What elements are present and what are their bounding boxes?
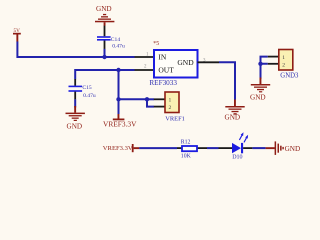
svg-text:VREF3.3V: VREF3.3V [103,119,137,128]
svg-text:REF3033: REF3033 [149,79,177,87]
capacitor C14 [97,26,125,50]
junction dot C14/bus [102,55,106,59]
wire VREF1 pin stubs [147,99,154,106]
wire node B to VREF1 [119,98,148,100]
wire 5V to IC pin1 bus [17,42,134,58]
wire node A down to node B [118,70,120,99]
svg-text:10K: 10K [181,154,192,160]
connector GND3 [268,50,299,80]
svg-text:C15: C15 [82,85,92,91]
svg-text:0.47u: 0.47u [83,93,96,99]
power port 5V [13,28,21,42]
wire port to R12 [139,147,177,149]
junction at GND3 [258,62,262,66]
svg-text:0.47u: 0.47u [112,43,125,49]
junction at VREF1 [145,97,149,101]
power ground GND (right, sideways) [266,141,301,155]
svg-text:VREF3.3V: VREF3.3V [103,145,133,152]
wire GND3 pin stubs [261,57,268,64]
power port VREF3.3V (bottom row) [103,144,140,152]
power port VREF3.3V (node B) [103,99,137,128]
ground GND (IC pin3) [225,100,245,122]
junction node B [116,97,120,101]
svg-text:GND: GND [96,5,112,13]
connector VREF1 [154,92,185,122]
svg-text:D10: D10 [232,155,242,161]
svg-text:GND: GND [285,145,301,153]
svg-text:OUT: OUT [158,66,174,75]
wire C14 bottom pin [104,49,106,57]
svg-text:1: 1 [169,98,172,104]
wire R12 to D10 [207,147,219,149]
ground GND (below GND3) [250,78,270,102]
svg-text:2: 2 [282,62,285,68]
ground GND (below C15) [66,106,85,130]
wire D10 to GND port [252,147,265,149]
svg-text:GND: GND [67,122,83,130]
wire OUT bus (C15 corner to IC pin2) [75,70,134,79]
wire GND3 to ground [260,64,262,79]
diode D10 (LED) [219,132,253,160]
svg-text:GND: GND [225,114,241,122]
op-amp U REF3033 [135,41,220,87]
power ground GND (above C14, flipped) [95,5,114,26]
wire pin3 to ground [219,62,235,99]
svg-text:GND: GND [177,58,194,67]
svg-text:VREF1: VREF1 [165,115,185,122]
svg-text:R12: R12 [181,139,191,145]
svg-text:*5: *5 [153,41,159,47]
svg-text:C14: C14 [111,37,121,43]
resistor R12 [177,139,207,159]
junction node A (OUT) [116,68,120,72]
capacitor C15 [69,85,96,107]
svg-text:IN: IN [158,52,166,61]
svg-text:GND3: GND3 [280,73,299,80]
svg-text:1: 1 [282,55,285,61]
svg-text:2: 2 [169,105,172,111]
svg-text:GND: GND [250,94,266,102]
